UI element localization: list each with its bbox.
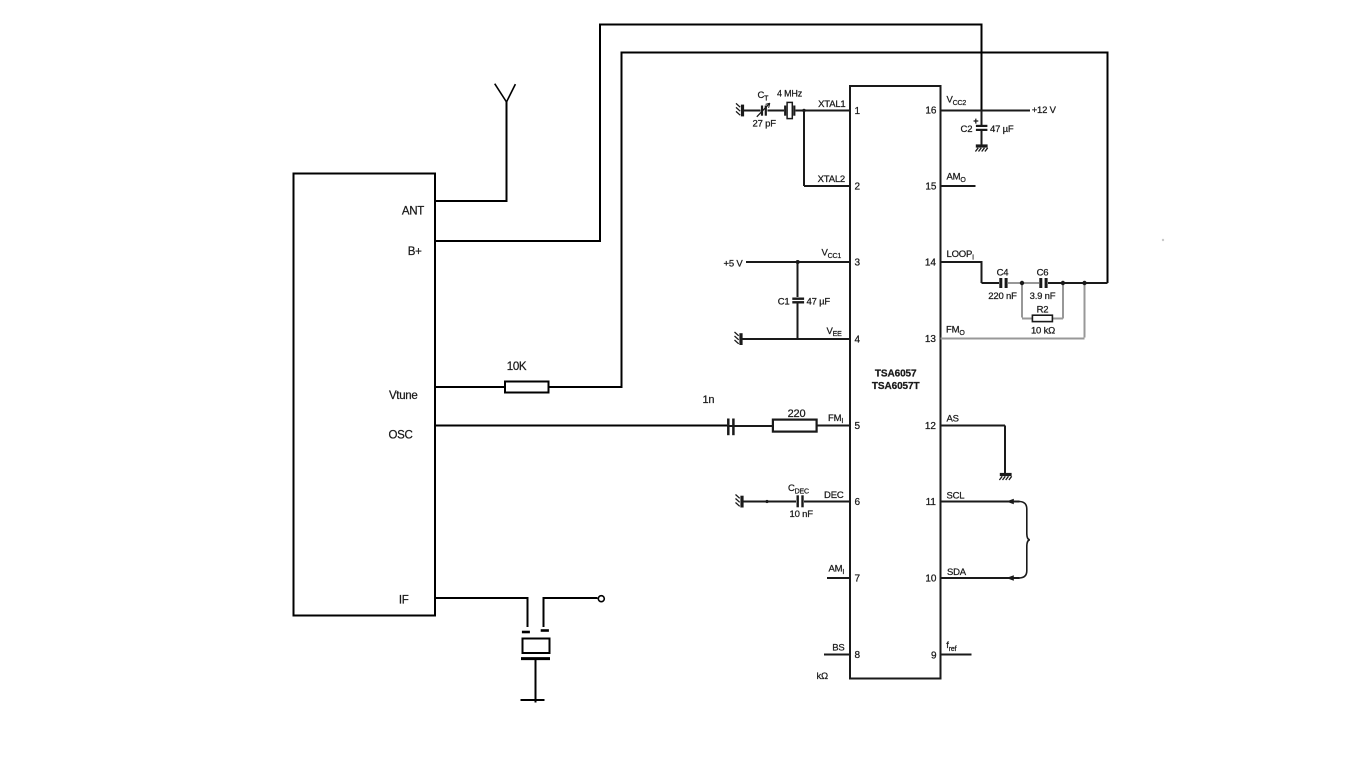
svg-text:TSA6057: TSA6057	[875, 369, 917, 380]
svg-text:DEC: DEC	[824, 490, 844, 501]
svg-text:47 µF: 47 µF	[990, 124, 1014, 135]
svg-text:+: +	[973, 116, 978, 126]
svg-text:4: 4	[855, 335, 861, 346]
svg-text:BS: BS	[832, 643, 844, 654]
svg-text:ANT: ANT	[402, 206, 424, 218]
svg-text:CDEC: CDEC	[788, 483, 809, 496]
svg-text:47 µF: 47 µF	[807, 296, 831, 307]
svg-text:VEE: VEE	[827, 326, 843, 338]
svg-text:FMI: FMI	[828, 413, 843, 425]
svg-text:3: 3	[855, 258, 861, 269]
svg-text:10 kΩ: 10 kΩ	[1031, 325, 1055, 336]
svg-text:9: 9	[931, 651, 937, 662]
svg-text:CT: CT	[758, 90, 770, 103]
svg-text:220: 220	[788, 408, 806, 420]
svg-text:AS: AS	[947, 414, 959, 425]
svg-text:VCC1: VCC1	[822, 248, 842, 260]
svg-text:10K: 10K	[507, 361, 527, 373]
svg-text:kΩ: kΩ	[817, 671, 829, 682]
svg-text:1n: 1n	[703, 394, 715, 406]
svg-text:LOOPI: LOOPI	[947, 249, 975, 261]
svg-text:R2: R2	[1037, 305, 1049, 316]
svg-text:OSC: OSC	[388, 430, 412, 442]
svg-text:13: 13	[925, 334, 937, 345]
svg-text:Vtune: Vtune	[389, 390, 418, 402]
svg-text:VCC2: VCC2	[947, 95, 967, 107]
svg-text:1: 1	[855, 106, 861, 117]
svg-text:16: 16	[925, 105, 937, 116]
svg-text:C2: C2	[961, 124, 973, 135]
svg-text:AMI: AMI	[829, 564, 845, 576]
svg-text:11: 11	[926, 497, 937, 508]
svg-text:4 MHz: 4 MHz	[777, 89, 803, 99]
svg-text:15: 15	[925, 182, 937, 193]
svg-text:8: 8	[855, 650, 861, 661]
svg-text:XTAL2: XTAL2	[818, 174, 845, 185]
svg-text:fref: fref	[946, 640, 956, 653]
svg-text:+12 V: +12 V	[1032, 105, 1057, 116]
svg-text:SDA: SDA	[947, 567, 967, 578]
svg-text:C1: C1	[778, 296, 790, 307]
svg-text:27 pF: 27 pF	[753, 119, 777, 130]
svg-text:5: 5	[855, 421, 861, 432]
svg-text:3.9 nF: 3.9 nF	[1030, 291, 1056, 302]
svg-text:7: 7	[855, 574, 861, 585]
svg-text:IF: IF	[399, 595, 409, 607]
svg-text:6: 6	[855, 497, 861, 508]
svg-text:C4: C4	[997, 268, 1009, 279]
svg-text:SCL: SCL	[947, 490, 965, 501]
svg-text:B+: B+	[408, 246, 422, 258]
svg-text:12: 12	[925, 421, 937, 432]
svg-text:220 nF: 220 nF	[988, 291, 1017, 302]
svg-text:+5 V: +5 V	[724, 258, 744, 269]
svg-text:C6: C6	[1037, 268, 1049, 279]
svg-text:10 nF: 10 nF	[790, 509, 814, 520]
svg-text:14: 14	[925, 258, 937, 269]
svg-text:TSA6057T: TSA6057T	[872, 381, 920, 392]
svg-text:XTAL1: XTAL1	[818, 99, 845, 110]
svg-text:2: 2	[855, 182, 861, 193]
svg-text:10: 10	[925, 574, 937, 585]
svg-text:FMO: FMO	[946, 325, 965, 337]
svg-text:AMO: AMO	[947, 171, 967, 183]
